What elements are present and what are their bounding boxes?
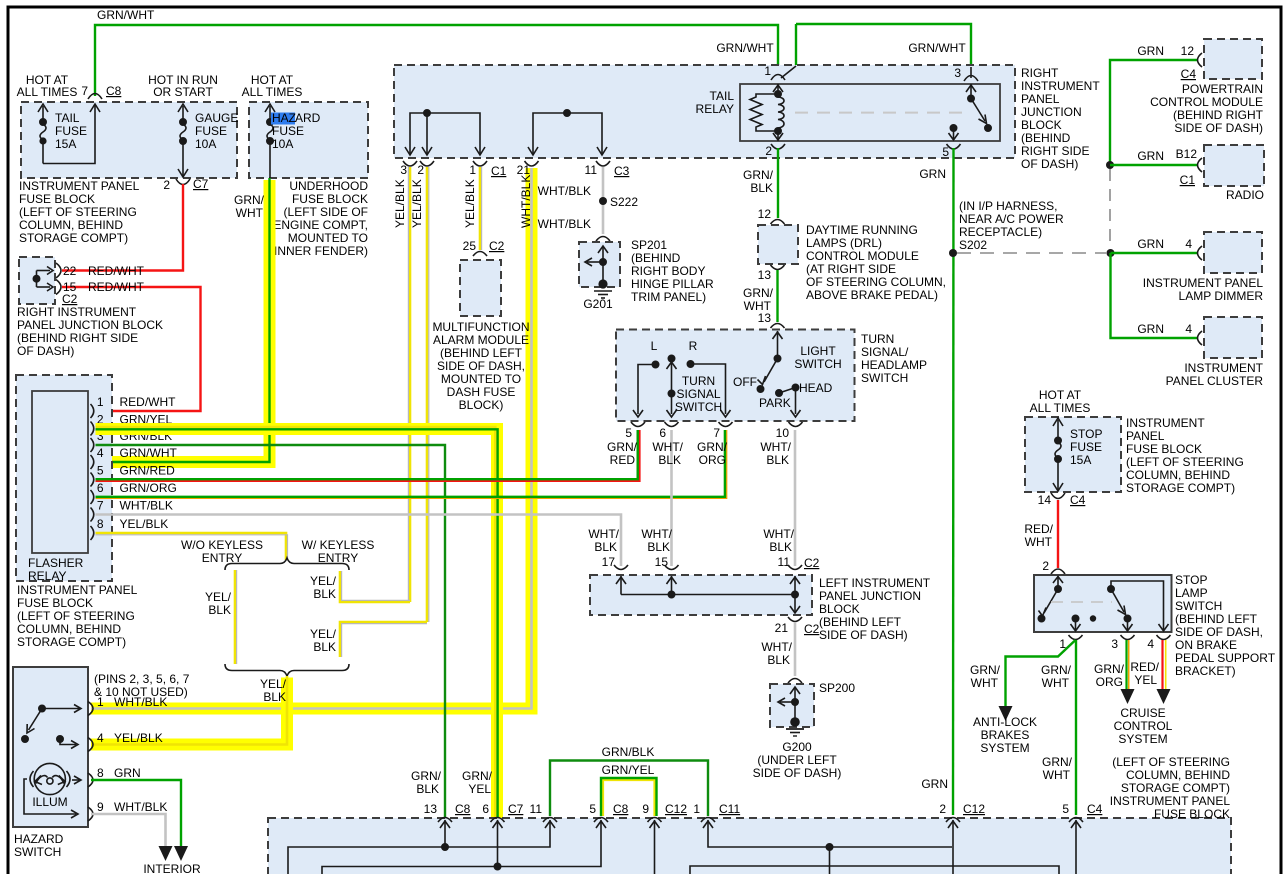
svg-text:7: 7: [81, 84, 88, 98]
wire GRN/WHT stub down into box: [795, 24, 797, 66]
svg-text:FUSE: FUSE: [195, 124, 227, 138]
connector bottom pin 11: [543, 818, 557, 823]
svg-text:C1: C1: [491, 164, 507, 178]
label HOT AT ALL TIMES (stop fuse): [1030, 388, 1091, 415]
svg-text:7: 7: [97, 499, 104, 513]
connector stop lamp pin 2: [1051, 569, 1065, 574]
wire GRN/RED green part: [96, 430, 638, 479]
svg-text:SIDE OF DASH): SIDE OF DASH): [819, 628, 908, 642]
svg-text:RED: RED: [610, 453, 636, 467]
arrow to cruise control (grn/org): [1121, 689, 1135, 704]
connector hazard pin 8: [88, 773, 93, 787]
svg-text:RECEPTACLE): RECEPTACLE): [959, 225, 1042, 239]
svg-text:GRN/: GRN/: [743, 286, 774, 300]
svg-text:RADIO: RADIO: [1226, 188, 1264, 202]
svg-text:TAIL: TAIL: [710, 89, 735, 103]
label WHT/BLK (pin6): [652, 440, 683, 467]
wire YEL/BLK flasher pin 8 to brace: [96, 533, 287, 560]
wire YEL/BLK brace bottom to hazard pin 4: [91, 676, 287, 745]
connector SP200 top: [788, 679, 802, 684]
instrument panel cluster box: [1204, 317, 1262, 358]
label INSTRUMENT PANEL FUSE BLOCK (flasher): [17, 583, 138, 649]
svg-text:COLUMN, BEHIND: COLUMN, BEHIND: [17, 622, 121, 636]
svg-text:C4: C4: [1070, 493, 1086, 507]
svg-text:YEL: YEL: [1134, 673, 1157, 687]
underhood fuse block (dashed box): [249, 102, 368, 178]
TS left wire to pin 5: [633, 365, 656, 418]
svg-text:8: 8: [97, 517, 104, 531]
svg-text:TAIL: TAIL: [55, 111, 80, 125]
stop lamp switch left blade: [1038, 576, 1063, 622]
label INSTRUMENT PANEL FUSE BLOCK: [19, 179, 140, 245]
label STOP FUSE 15A: [1070, 427, 1102, 467]
label RIGHT INSTRUMENT PANEL JUNCTION BLOCK: [1021, 66, 1100, 171]
label POWERTRAIN CONTROL MODULE (BEHIND RIGHT SIDE OF DASH): [1150, 82, 1264, 135]
svg-text:SP201: SP201: [631, 238, 667, 252]
svg-text:ABOVE BRAKE PEDAL): ABOVE BRAKE PEDAL): [806, 288, 938, 302]
svg-text:11: 11: [778, 555, 791, 569]
connector cluster pin 4: [1198, 331, 1203, 345]
connector hazard pin 9: [88, 807, 93, 821]
svg-text:FUSE BLOCK: FUSE BLOCK: [1154, 807, 1230, 821]
stop lamp switch box: [1034, 575, 1172, 632]
svg-text:C8: C8: [613, 802, 629, 816]
label YEL/BLK (right branch upper): [310, 574, 337, 601]
svg-text:GRN/RED: GRN/RED: [120, 464, 176, 478]
label HAZARD SWITCH: [14, 832, 64, 859]
svg-text:(AT RIGHT SIDE: (AT RIGHT SIDE: [806, 262, 896, 276]
svg-text:YEL/BLK: YEL/BLK: [393, 179, 407, 228]
svg-text:ORG: ORG: [1096, 675, 1123, 689]
connector TS pin 6: [665, 422, 679, 427]
svg-text:10: 10: [776, 426, 790, 440]
svg-text:1: 1: [764, 64, 771, 78]
svg-text:GRN/WHT: GRN/WHT: [908, 41, 966, 55]
svg-text:15A: 15A: [55, 137, 76, 151]
connector bottom pin 5 C8: [594, 818, 608, 823]
svg-text:YEL: YEL: [468, 782, 491, 796]
right instrument panel junction block (large dashed box): [394, 65, 1015, 158]
connector bottom pin 1 C11: [701, 818, 715, 823]
svg-text:ORG: ORG: [699, 453, 726, 467]
svg-text:CONTROL: CONTROL: [1114, 719, 1173, 733]
svg-text:C11: C11: [719, 802, 740, 816]
wire GRN to radio: [1110, 164, 1198, 166]
svg-text:FUSE: FUSE: [272, 124, 304, 138]
svg-text:14: 14: [1038, 493, 1052, 507]
label GRN/WHT (center): [1041, 663, 1072, 690]
svg-text:GRN: GRN: [921, 777, 948, 791]
connector bottom pin 2 C12: [946, 818, 960, 823]
svg-text:1: 1: [469, 163, 476, 177]
stripe: [342, 624, 427, 657]
stripe: [342, 571, 410, 600]
svg-text:GRN: GRN: [919, 167, 946, 181]
hazard pin 8 arrow: [72, 776, 81, 784]
splice box SP200: [770, 684, 814, 727]
svg-text:BLK: BLK: [416, 782, 439, 796]
splice S222: [599, 197, 607, 205]
powertrain control module box: [1204, 39, 1262, 79]
svg-text:BLOCK: BLOCK: [1021, 118, 1062, 132]
svg-text:WHT/BLK: WHT/BLK: [519, 175, 533, 228]
svg-text:13: 13: [758, 268, 772, 282]
connector TS pin 13: [771, 324, 785, 329]
label INSTRUMENT PANEL CLUSTER: [1166, 361, 1264, 388]
svg-text:SIDE OF DASH): SIDE OF DASH): [753, 766, 842, 780]
right instrument panel junction block (dashed box): [19, 257, 55, 304]
svg-text:FUSE: FUSE: [1070, 440, 1102, 454]
hazard pin 4 contact: [57, 736, 78, 749]
svg-text:10A: 10A: [272, 137, 293, 151]
lamp ILLUM: [34, 763, 65, 794]
svg-text:CONTROL MODULE: CONTROL MODULE: [806, 249, 919, 263]
svg-text:C2: C2: [804, 556, 820, 570]
svg-text:C12: C12: [963, 802, 985, 816]
wire GRN to lamp dimmer: [1111, 252, 1199, 254]
svg-text:13: 13: [758, 311, 772, 325]
wire GRN/ORG flasher pin 6 to turn signal pin 7: [96, 430, 727, 498]
instrument panel fuse block (dashed box): [21, 102, 237, 178]
wire WHT/BLK hazard pin 1 to top pin 21: [91, 168, 532, 709]
svg-text:5: 5: [97, 464, 104, 478]
svg-text:LAMPS (DRL): LAMPS (DRL): [806, 236, 882, 250]
svg-text:INSTRUMENT: INSTRUMENT: [1021, 79, 1100, 93]
wire GRN/YEL hoop green part: [601, 778, 657, 816]
instrument panel fuse block (bottom dashed box): [268, 818, 1231, 874]
svg-text:YEL/: YEL/: [310, 574, 337, 588]
label WHT/BLK (above pin 17): [588, 527, 619, 554]
svg-text:OFF: OFF: [733, 375, 757, 389]
label INSTRUMENT PANEL LAMP DIMMER: [1143, 276, 1264, 303]
connector junction pin 15: [665, 565, 679, 570]
svg-text:SYSTEM: SYSTEM: [1118, 732, 1167, 746]
wire GRN/YEL flasher pin 2 to bottom pin 6 C7: [96, 427, 496, 818]
bottom box riser pin 6: [493, 820, 503, 870]
label MULTIFUNCTION ALARM MODULE: [432, 320, 529, 412]
svg-text:WHT/BLK: WHT/BLK: [538, 184, 591, 198]
svg-text:10A: 10A: [195, 137, 216, 151]
svg-text:GRN/: GRN/: [697, 440, 728, 454]
wire WHT/BLK TS pin 6 to junction pin 15: [670, 430, 673, 566]
svg-text:GRN/: GRN/: [1094, 662, 1125, 676]
splice junction (radio): [1106, 161, 1114, 169]
label WHT/BLK (above SP200): [761, 640, 792, 667]
connector tail relay pin 3: [964, 76, 978, 82]
svg-text:WHT: WHT: [1025, 535, 1053, 549]
highlight YEL/BLK brace to hazard pin 4: [91, 678, 287, 745]
left instrument panel junction block box: [590, 575, 812, 615]
svg-text:22: 22: [63, 264, 77, 278]
connector C7: [176, 179, 190, 185]
coil (tail relay): [778, 97, 784, 128]
svg-text:ON BRAKE: ON BRAKE: [1175, 638, 1237, 652]
svg-text:LEFT INSTRUMENT: LEFT INSTRUMENT: [819, 576, 931, 590]
svg-text:5: 5: [1062, 802, 1069, 816]
svg-text:2: 2: [939, 802, 946, 816]
svg-text:WHT/: WHT/: [641, 527, 672, 541]
svg-text:GRN: GRN: [1137, 149, 1164, 163]
svg-text:COLUMN, BEHIND: COLUMN, BEHIND: [19, 218, 123, 232]
svg-text:(PINS 2, 3, 5, 6, 7: (PINS 2, 3, 5, 6, 7: [94, 672, 190, 686]
connector top pin 1 C1: [473, 161, 487, 166]
wire GRN/BLK hoop pin 11 to pin 1 C11: [550, 761, 708, 817]
svg-text:COLUMN, BEHIND: COLUMN, BEHIND: [1126, 468, 1230, 482]
svg-text:INSTRUMENT PANEL: INSTRUMENT PANEL: [1143, 276, 1264, 290]
svg-text:ARD: ARD: [295, 111, 321, 125]
svg-text:INNER FENDER): INNER FENDER): [274, 244, 368, 258]
svg-text:RIGHT BODY: RIGHT BODY: [631, 264, 705, 278]
svg-text:ANTI-LOCK: ANTI-LOCK: [973, 715, 1037, 729]
fuse GAUGE FUSE 10A: [178, 104, 188, 177]
label GRN/YEL (above bottom pin 6): [462, 769, 493, 796]
svg-text:YEL/: YEL/: [260, 677, 287, 691]
label WHT/BLK (above pin 15): [641, 527, 672, 554]
bottom box riser pin 11: [288, 820, 555, 874]
svg-text:12: 12: [1181, 44, 1195, 58]
svg-text:5: 5: [625, 426, 632, 440]
connector tail relay pin 2: [771, 144, 785, 149]
ground G201: [594, 279, 612, 298]
tail relay switch: [966, 67, 991, 131]
svg-text:HEAD: HEAD: [799, 381, 833, 395]
svg-text:13: 13: [424, 802, 438, 816]
svg-text:OF STEERING COLUMN,: OF STEERING COLUMN,: [806, 275, 946, 289]
svg-text:C2: C2: [489, 239, 505, 253]
svg-text:BLK: BLK: [750, 181, 773, 195]
label GRN/WHT (DRL to switch): [743, 286, 774, 313]
svg-text:STOP: STOP: [1070, 427, 1102, 441]
highlight HAZ (search highlight): [271, 113, 295, 125]
svg-text:C8: C8: [455, 802, 471, 816]
svg-text:SIGNAL/: SIGNAL/: [861, 345, 909, 359]
svg-text:BLK: BLK: [766, 453, 789, 467]
label GRN/RED (pin5): [607, 440, 638, 467]
svg-text:BLK: BLK: [647, 540, 670, 554]
label RED/WHT: [1024, 522, 1053, 549]
svg-text:PANEL JUNCTION: PANEL JUNCTION: [819, 589, 921, 603]
label (LEFT OF STEERING COLUMN BEHIND STORAGE COMPT) INSTRUMENT PANEL FUSE BLOCK: [1110, 755, 1231, 821]
svg-text:HOT AT: HOT AT: [1039, 388, 1082, 402]
svg-text:RIGHT INSTRUMENT: RIGHT INSTRUMENT: [17, 305, 137, 319]
label GRN/BLK: [743, 168, 774, 195]
svg-text:SWITCH: SWITCH: [861, 371, 908, 385]
fuse STOP FUSE 15A: [1053, 418, 1063, 491]
svg-text:RED/: RED/: [1024, 522, 1053, 536]
svg-text:(BEHIND LEFT: (BEHIND LEFT: [440, 346, 523, 360]
svg-text:(BEHIND LEFT: (BEHIND LEFT: [1175, 612, 1258, 626]
stripe: [407, 167, 409, 602]
label WHT/BLK (pin10): [760, 440, 791, 467]
svg-text:ILLUM: ILLUM: [32, 795, 67, 809]
label YEL/BLK (right branch lower): [310, 627, 337, 654]
label RIGHT INSTRUMENT PANEL JUNCTION BLOCK: [17, 305, 163, 358]
label GRN/ORG (pin7): [697, 440, 728, 467]
wire GRN/WHT from C8 pin 7 to tail relay pin 1: [95, 25, 778, 96]
wire YEL/BLK w/ keyless branch lower: [340, 622, 427, 657]
svg-text:GRN: GRN: [1137, 44, 1164, 58]
svg-text:ALL TIMES: ALL TIMES: [1030, 401, 1091, 415]
svg-text:WHT/: WHT/: [761, 640, 792, 654]
connector DRL pin 12: [771, 220, 785, 225]
svg-text:BLOCK: BLOCK: [819, 602, 860, 616]
svg-text:GRN/: GRN/: [462, 769, 493, 783]
svg-text:NEAR A/C POWER: NEAR A/C POWER: [959, 212, 1064, 226]
connector flasher pin 5: [91, 473, 94, 487]
wire GRN right column trunk: [1110, 60, 1198, 165]
svg-text:4: 4: [1185, 237, 1192, 251]
svg-text:2: 2: [1042, 559, 1049, 573]
turn signal switch contacts: [652, 355, 693, 367]
svg-text:FLASHER: FLASHER: [28, 556, 84, 570]
svg-text:BLK: BLK: [263, 690, 286, 704]
svg-text:GRN/: GRN/: [411, 769, 442, 783]
wire GRN/BLK tail relay pin 2 to DRL pin 12: [777, 148, 779, 218]
svg-text:STORAGE COMPT): STORAGE COMPT): [17, 635, 126, 649]
connector SP201 top: [596, 237, 610, 242]
svg-text:C12: C12: [665, 802, 687, 816]
SP200 internals: [778, 687, 800, 719]
label TAIL FUSE 15A: [55, 111, 87, 151]
instrument panel lamp dimmer box: [1204, 232, 1262, 273]
svg-text:INSTRUMENT: INSTRUMENT: [1184, 361, 1263, 375]
svg-text:2: 2: [765, 144, 772, 158]
svg-text:SWITCH: SWITCH: [1175, 599, 1222, 613]
bottom box riser pin 2 C12: [948, 820, 958, 874]
connector PCM pin 12 C4: [1198, 53, 1203, 67]
label YEL/BLK (left branch): [205, 590, 232, 617]
svg-text:1: 1: [97, 395, 104, 409]
label FLASHER RELAY: [28, 556, 84, 583]
bottom box riser pin 9: [650, 820, 660, 874]
connector flasher pin 7: [91, 508, 94, 522]
svg-text:GRN: GRN: [114, 766, 141, 780]
tail relay box: [740, 84, 1000, 141]
svg-text:RED/: RED/: [1130, 660, 1159, 674]
svg-text:HEADLAMP: HEADLAMP: [861, 358, 927, 372]
fuse TAIL FUSE 15A: [38, 104, 100, 164]
connector C4 (stop fuse): [1051, 493, 1065, 499]
hazard switch box: [13, 667, 88, 827]
svg-text:C7: C7: [193, 177, 209, 191]
label TURN SIGNAL SWITCH: [675, 374, 722, 414]
svg-text:ALL TIMES: ALL TIMES: [17, 85, 78, 99]
svg-text:TURN: TURN: [682, 374, 715, 388]
resistor (tail relay): [750, 94, 778, 131]
stripe: [236, 570, 238, 664]
svg-text:4: 4: [97, 731, 104, 745]
wire GRN/ORG green part: [96, 430, 725, 497]
connector bottom pin 9 C12: [648, 818, 662, 823]
label PINS NOT USED: [94, 672, 190, 699]
svg-text:R: R: [689, 339, 698, 353]
SP201 internals: [585, 246, 608, 280]
wire GRN to cluster: [1111, 253, 1199, 338]
connector pin 15: [56, 280, 61, 295]
svg-text:C2: C2: [804, 622, 820, 636]
label W/ KEYLESS ENTRY: [302, 538, 375, 565]
svg-text:RED/WHT: RED/WHT: [88, 264, 145, 278]
label GRN/BLK (above bottom pin 13): [411, 769, 442, 796]
connector 25 C2: [473, 252, 487, 257]
splice box SP201: [579, 242, 620, 287]
connector hazard pin 1: [88, 702, 93, 716]
svg-text:FUSE BLOCK: FUSE BLOCK: [1126, 442, 1202, 456]
svg-text:COLUMN, BEHIND: COLUMN, BEHIND: [1126, 768, 1230, 782]
svg-text:STORAGE COMPT): STORAGE COMPT): [1121, 781, 1230, 795]
svg-text:GRN: GRN: [1137, 322, 1164, 336]
label GRN/ORG: [1094, 662, 1125, 689]
svg-text:W/ KEYLESS: W/ KEYLESS: [302, 538, 375, 552]
fuse HAZARD FUSE 10A: [265, 104, 275, 178]
svg-text:FUSE BLOCK: FUSE BLOCK: [292, 192, 368, 206]
label ANTI-LOCK BRAKES SYSTEM: [973, 715, 1037, 755]
svg-text:8: 8: [97, 766, 104, 780]
svg-text:WHT: WHT: [1043, 768, 1071, 782]
pin 22 internals: [37, 267, 54, 275]
svg-text:POWERTRAIN: POWERTRAIN: [1182, 82, 1263, 96]
svg-text:C2: C2: [62, 292, 78, 306]
svg-text:RIGHT: RIGHT: [1021, 66, 1059, 80]
radio box: [1204, 145, 1264, 186]
wire GRN/WHT jumper to tail relay pin 3: [796, 24, 971, 67]
svg-text:WHT/BLK: WHT/BLK: [120, 499, 173, 513]
svg-text:GRN/WHT: GRN/WHT: [97, 8, 155, 22]
svg-text:SWITCH: SWITCH: [794, 357, 841, 371]
svg-text:WHT/BLK: WHT/BLK: [538, 217, 591, 231]
ground G200: [786, 717, 804, 736]
svg-text:OR START: OR START: [153, 85, 213, 99]
wire WHT/BLK hazard pin 9 to interior: [91, 814, 166, 847]
svg-text:3: 3: [400, 163, 407, 177]
svg-text:GRN/ORG: GRN/ORG: [120, 481, 177, 495]
connector top pin 2: [420, 161, 434, 166]
svg-text:(BEHIND RIGHT: (BEHIND RIGHT: [1173, 108, 1264, 122]
label LIGHT SWITCH: [794, 344, 841, 371]
svg-text:PANEL CLUSTER: PANEL CLUSTER: [1166, 374, 1264, 388]
label DAYTIME RUNNING LAMPS (DRL) CONTROL MODULE: [806, 223, 946, 302]
svg-text:SWITCH: SWITCH: [675, 400, 722, 414]
svg-text:6: 6: [659, 426, 666, 440]
svg-text:12: 12: [758, 207, 772, 221]
svg-text:PEDAL SUPPORT: PEDAL SUPPORT: [1175, 651, 1276, 665]
connector TS pin 10: [789, 422, 803, 427]
label INSTRUMENT PANEL FUSE BLOCK (stop fuse): [1126, 416, 1244, 495]
svg-text:6: 6: [482, 802, 489, 816]
svg-text:OF DASH): OF DASH): [1021, 157, 1078, 171]
light switch feed: [757, 331, 782, 392]
svg-text:GAUGE: GAUGE: [195, 111, 238, 125]
svg-text:INSTRUMENT PANEL: INSTRUMENT PANEL: [17, 583, 138, 597]
stop lamp pin 1 contact: [1071, 615, 1081, 631]
svg-text:5: 5: [589, 802, 596, 816]
wire GRN/RED flasher pin 5 to turn signal pin 5: [96, 430, 640, 481]
svg-text:BRAKES: BRAKES: [981, 728, 1030, 742]
joining diagonal from second GRN/WHT: [781, 66, 796, 78]
wire GRN/BLK flasher pin 3 to bottom pin 13 C8: [96, 445, 446, 818]
arrow to interior lamps (grn): [174, 846, 188, 861]
arrow to interior lamps (wht): [159, 846, 173, 861]
wire YEL/BLK gray stripe: [96, 535, 288, 560]
label TURN SIGNAL/ HEADLAMP SWITCH: [861, 332, 927, 385]
connector bottom pin 6 C7: [491, 818, 505, 823]
svg-text:(BEHIND LEFT: (BEHIND LEFT: [819, 615, 902, 629]
flasher relay fuse block (dashed box): [16, 375, 112, 581]
instrument panel fuse block (stop fuse dashed box): [1025, 417, 1121, 492]
stop lamp switch right blade: [1108, 586, 1133, 631]
svg-text:GRN/: GRN/: [1041, 663, 1072, 677]
svg-text:C8: C8: [106, 84, 122, 98]
